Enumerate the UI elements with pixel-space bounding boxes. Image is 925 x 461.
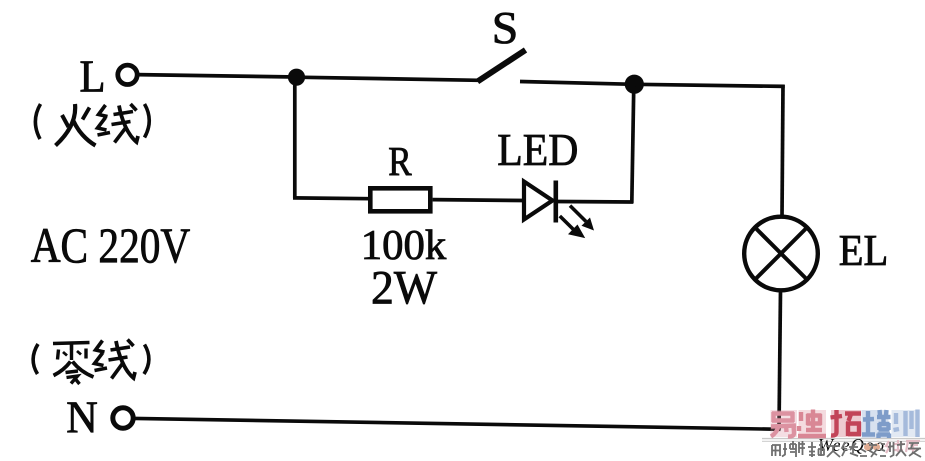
wire junction B to top-right corner — [634, 84, 785, 86]
label S — [492, 2, 519, 53]
label N — [66, 392, 98, 442]
LED D1 diode — [524, 181, 556, 223]
junction B — [625, 75, 644, 94]
wire to resistor R — [293, 196, 370, 201]
wire LED to right branch — [558, 200, 634, 204]
svg-text:EL: EL — [839, 226, 889, 275]
wire switch to junction B — [520, 82, 634, 85]
svg-text:S: S — [492, 2, 519, 53]
svg-text:AC 220V: AC 220V — [31, 217, 191, 273]
wire resistor to LED — [433, 198, 524, 203]
svg-text:N: N — [66, 392, 98, 442]
label L — [80, 51, 106, 101]
wire top-right corner down to lamp — [782, 85, 783, 217]
watermark slogan 射频和天线设计专家 — [772, 441, 921, 457]
LED arrow 1 — [570, 206, 594, 231]
svg-text:R: R — [388, 138, 412, 184]
label 2W — [371, 262, 438, 315]
watermark logo char 培 — [862, 410, 889, 438]
label LED — [497, 125, 578, 175]
switch S blade — [478, 50, 526, 82]
label （火线） — [35, 104, 149, 146]
wire lamp down to bottom corner — [779, 291, 781, 430]
wire junction A to switch — [296, 77, 479, 80]
wire L to junction A — [137, 75, 296, 77]
watermark 维库 — [886, 440, 920, 453]
watermark logo char 迪 — [799, 410, 827, 437]
watermark logo char 拓 — [831, 410, 861, 437]
label EL — [839, 226, 889, 275]
resistor R body — [370, 188, 430, 211]
LED arrow 2 — [560, 216, 585, 238]
wire junction A down — [293, 77, 297, 198]
watermark logo char 易 — [771, 410, 798, 437]
label （零线） — [33, 340, 149, 385]
watermark WeeQoo — [818, 435, 884, 455]
label 100k — [361, 223, 447, 269]
lamp EL — [744, 217, 818, 291]
watermark logo char 训 — [892, 410, 920, 437]
svg-text:LED: LED — [497, 125, 578, 175]
terminal N — [113, 408, 133, 428]
junction A — [288, 69, 305, 86]
terminal L — [118, 65, 137, 84]
label AC 220V — [31, 217, 191, 273]
wire right branch up to junction B — [632, 85, 634, 204]
bottom wire to terminal N — [135, 418, 781, 429]
svg-text:L: L — [80, 51, 106, 101]
label R — [388, 138, 412, 184]
watermark ruling lines — [762, 439, 925, 442]
svg-text:2W: 2W — [371, 262, 438, 315]
